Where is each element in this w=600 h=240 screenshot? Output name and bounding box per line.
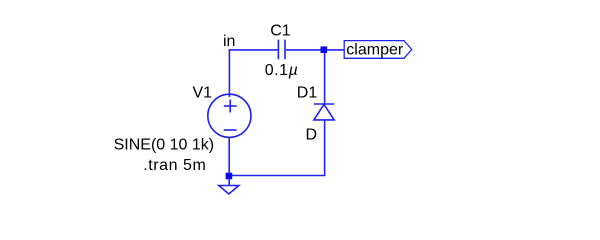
svg-text:in: in — [223, 33, 235, 50]
wire bottom horizontal — [229, 175, 325, 177]
wire C1 right plate to clamper flag — [286, 49, 345, 51]
wire in node to V1 top — [228, 50, 230, 97]
wire in node to C1 left plate — [229, 49, 278, 51]
svg-text:D1: D1 — [297, 84, 318, 101]
svg-text:0.1µ: 0.1µ — [265, 62, 299, 79]
flag clamper outline — [344, 41, 412, 59]
capacitor C1 — [278, 40, 285, 60]
svg-text:clamper: clamper — [346, 41, 404, 58]
svg-text:C1: C1 — [270, 22, 291, 39]
diode D1 — [314, 104, 334, 120]
ground — [219, 186, 239, 195]
node junction at C1/D1/flag — [321, 46, 328, 53]
wire D1 anode down to bottom wire — [324, 120, 326, 176]
node junction at V1/ground/D1 bottom — [226, 173, 233, 180]
svg-text:.tran 5m: .tran 5m — [143, 157, 206, 174]
svg-text:D: D — [306, 126, 318, 143]
voltage source V1 — [208, 94, 251, 137]
svg-text:SINE(0 10 1k): SINE(0 10 1k) — [114, 136, 214, 153]
svg-text:V1: V1 — [193, 85, 213, 102]
wire V1 bottom to ground — [228, 138, 230, 186]
wire junction down to D1 cathode — [324, 50, 326, 104]
